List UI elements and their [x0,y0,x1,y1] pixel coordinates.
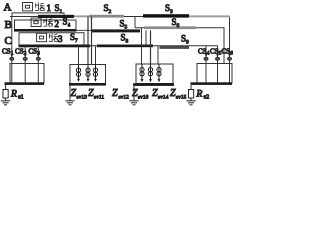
resistor Re2 [189,90,194,99]
svg-text:3: 3 [58,34,63,44]
junction box 2 [136,64,173,84]
junction 1 wire from A (1) [87,17,89,65]
svg-text:CS4: CS4 [198,48,210,57]
junction 2 wire S5 down [150,30,152,64]
left ground box bottom bar [5,82,45,85]
glyph 路 (loop3) [49,33,59,41]
section S3 bar [143,14,189,17]
section S2 bar [89,15,124,18]
right earth lead [190,85,192,90]
svg-text:A: A [4,2,12,14]
junction 1 wire from C (2) [95,46,97,65]
CS6 sensor [227,53,231,60]
svg-text:sv11: sv11 [94,95,104,101]
svg-text:CS5: CS5 [210,48,222,57]
junction 2 wire C down [157,46,159,64]
junction 1 wire from C [78,46,80,65]
junction 2 wire S5 down (a) [145,30,147,46]
svg-text:R: R [10,90,17,100]
junction box 2 ground lead [133,86,135,101]
loop1 box outline [12,13,64,16]
glyph 回 (loop1) [23,3,33,11]
section S8 bar [97,45,153,48]
junction box 1 bottom bar [69,83,106,86]
arrester 5 [148,64,152,82]
svg-text:sv14: sv14 [158,95,169,101]
section S7 bar [19,45,91,48]
loop3 box outline [19,33,84,46]
svg-text:S2: S2 [104,3,112,15]
wire S4 to S5 [76,29,92,31]
left ground box [10,64,44,84]
wire right lead C2 [205,46,207,83]
ground symbol jb1 [65,101,74,105]
svg-text:S5: S5 [120,19,128,31]
wire A gap1 gray [74,15,89,17]
arrester 3 [93,65,97,82]
CS2 sensor [23,53,27,60]
svg-text:S7: S7 [70,32,78,44]
svg-text:S9: S9 [181,34,189,46]
CS1 sensor [10,53,14,60]
CS5 sensor [215,53,219,60]
svg-text:e1: e1 [18,95,24,101]
svg-text:C: C [5,35,12,47]
arrester 2 [86,65,90,82]
svg-text:CS6: CS6 [222,48,234,57]
arrester 6 [157,64,161,82]
section S5 bar [91,29,140,32]
junction 2 wire B down [141,28,143,64]
section S9 bar [160,46,190,49]
section S1 bar [38,15,74,18]
wire left lead A [11,17,13,84]
resistor Re2 lead [190,98,192,101]
junction box 2 bottom bar [133,83,174,86]
ground symbol right [186,101,195,105]
glyph 回 (loop2) [31,18,41,26]
junction 2 wire A to B [134,17,136,28]
svg-text:R: R [196,90,203,100]
svg-text:sv15: sv15 [176,95,187,101]
svg-text:2: 2 [55,19,60,29]
svg-text:sv13: sv13 [77,95,88,101]
section S4 bar (loop2 bottom) [14,29,77,32]
svg-text:e2: e2 [204,95,210,101]
glyph 路 (loop2) [43,18,53,26]
ground symbol left [1,101,10,105]
arrester 4 [140,64,144,82]
svg-text:S3: S3 [165,3,173,15]
loop2 box outline [15,20,77,30]
junction box 1 [70,65,106,84]
ground symbol jb2 [129,101,138,105]
right ground box [197,64,232,84]
arrester 1 [76,65,80,82]
svg-text:sv16: sv16 [138,95,149,101]
resistor Re1 [3,90,8,99]
CS3 sensor [36,53,40,60]
glyph 路 (loop1) [35,3,45,11]
svg-text:1: 1 [47,3,52,13]
junction box 1 ground lead [69,86,71,101]
CS4 sensor [204,53,208,60]
svg-text:B: B [5,19,12,31]
section S6 bar [144,26,196,29]
phase C bus wire [19,46,218,83]
phase A bus wire [10,17,230,84]
svg-text:sv12: sv12 [119,95,130,101]
svg-text:S8: S8 [121,33,129,45]
glyph 回 (loop3) [37,33,47,41]
resistor Re1 lead [5,98,7,101]
svg-text:S4: S4 [63,17,71,29]
wire left lead C3 [37,46,39,83]
wire left lead C2 [24,46,26,83]
svg-text:Z: Z [112,88,118,99]
phase B right wire [135,28,224,64]
junction 1 wire from A (2) [91,17,93,65]
right ground box bottom bar [191,82,233,85]
left earth lead [5,85,7,90]
wire A right gray [189,15,230,17]
